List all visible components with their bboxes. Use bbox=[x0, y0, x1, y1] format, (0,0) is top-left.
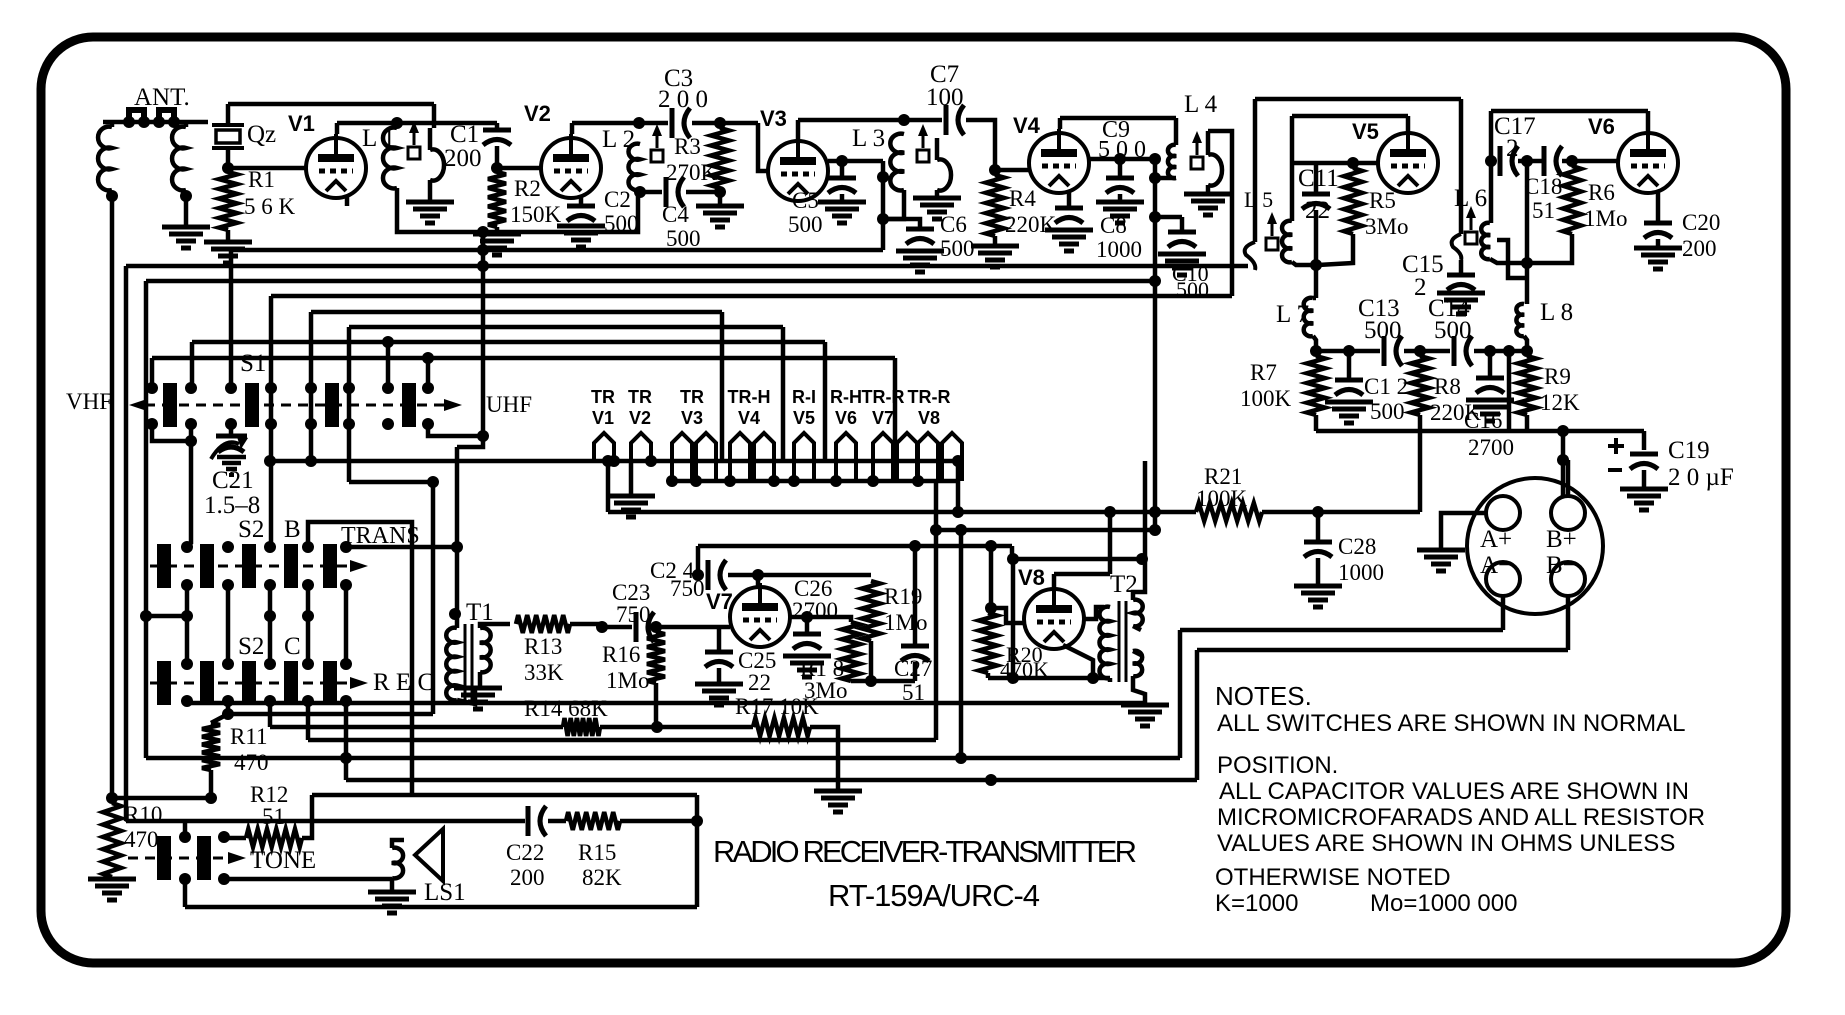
S1 contact bottom x349 bbox=[343, 418, 355, 430]
node bus tap bbox=[477, 226, 489, 238]
inductor LS1 coil bbox=[392, 848, 403, 879]
wire bbox=[1153, 159, 1158, 217]
inductor T2 sec bottom bbox=[1133, 651, 1142, 677]
svg-text:51: 51 bbox=[262, 804, 285, 829]
svg-text:200: 200 bbox=[510, 865, 545, 890]
wire V1 plate bbox=[335, 123, 340, 134]
wire bbox=[226, 148, 231, 168]
wire to C6 bbox=[883, 219, 920, 227]
wire bbox=[1313, 336, 1316, 351]
node B+ line bbox=[1557, 454, 1569, 466]
svg-text:V3: V3 bbox=[681, 408, 703, 428]
node V5 tank bbox=[1310, 259, 1322, 271]
node bbox=[1149, 153, 1161, 165]
wire bbox=[805, 617, 810, 632]
wire R8 down bbox=[1418, 431, 1423, 512]
inductor L3 link bbox=[937, 159, 951, 190]
wire bus y727 to R14 bbox=[270, 725, 563, 730]
wire S2 b-c link1 bbox=[185, 585, 190, 664]
svg-text:500: 500 bbox=[788, 212, 823, 237]
S2C contact top x346 bbox=[340, 658, 352, 670]
S2B contact top x228 bbox=[222, 541, 234, 553]
wire bus y296 bbox=[271, 294, 1232, 299]
tube V5 bbox=[1378, 129, 1438, 193]
inductor L8 bbox=[1516, 304, 1524, 336]
wire bbox=[495, 146, 500, 168]
wire R17 out bbox=[810, 727, 838, 789]
ground R1 bbox=[204, 240, 252, 245]
node V2 grid bbox=[491, 162, 503, 174]
S1 contact top x311 bbox=[305, 382, 317, 394]
svg-text:R15: R15 bbox=[578, 840, 616, 865]
wire C27 stub bbox=[913, 631, 918, 644]
S1 contact bottom x428 bbox=[422, 418, 434, 430]
S2B contact bottom x346 bbox=[340, 579, 352, 591]
wire bbox=[570, 624, 602, 627]
capacitor C6 bbox=[906, 227, 934, 232]
svg-text:270K: 270K bbox=[666, 160, 718, 185]
svg-text:1000: 1000 bbox=[1338, 560, 1384, 585]
bus2 junction x672 bbox=[666, 475, 678, 487]
svg-text:L 4: L 4 bbox=[1184, 91, 1218, 118]
wire V8 cathode bbox=[1063, 645, 1093, 678]
ground C16 bbox=[1466, 398, 1514, 403]
wire bbox=[1133, 651, 1141, 655]
S2C contact top x270 bbox=[264, 658, 276, 670]
pin TR-H V4b bbox=[754, 433, 774, 481]
junction bbox=[168, 116, 180, 128]
resistor R4 bbox=[986, 175, 1004, 236]
switch TONE bar x204 bbox=[197, 836, 211, 880]
svg-text:UHF: UHF bbox=[486, 392, 532, 417]
wire riser x428 bbox=[426, 358, 431, 388]
wire bbox=[1488, 351, 1493, 376]
wire B- bus bbox=[1197, 648, 1568, 653]
wire bbox=[1155, 215, 1182, 220]
svg-text:R4: R4 bbox=[1009, 186, 1036, 211]
svg-text:A−: A− bbox=[1480, 552, 1512, 579]
wire L6 bottom bbox=[1490, 259, 1525, 263]
wire bbox=[1525, 415, 1530, 431]
junction bbox=[952, 455, 964, 467]
wire left riser y281 bbox=[144, 281, 149, 758]
wire V4 plate bbox=[1058, 118, 1063, 129]
svg-text:RADIO RECEIVER-TRANSMITTER: RADIO RECEIVER-TRANSMITTER bbox=[713, 834, 1137, 869]
wire bbox=[869, 641, 874, 681]
capacitor C24 bbox=[706, 560, 711, 590]
ground C21 bbox=[217, 455, 246, 460]
inductor T2 primary bbox=[1099, 607, 1110, 679]
node C9 bbox=[1114, 153, 1126, 165]
switch S1 bar x170 bbox=[163, 383, 177, 427]
node L7 bottom bbox=[1310, 345, 1322, 357]
wire bbox=[696, 546, 701, 575]
wire bbox=[1010, 546, 1015, 559]
node L8 bottom bbox=[1521, 345, 1533, 357]
svg-text:C22: C22 bbox=[506, 840, 544, 865]
svg-text:C: C bbox=[284, 633, 301, 660]
capacitor C1 bbox=[483, 128, 511, 133]
switch S1 bar x409 bbox=[402, 383, 416, 427]
tube V7 bbox=[730, 583, 790, 647]
wire bus y798 bbox=[112, 796, 211, 801]
wire bbox=[1316, 558, 1321, 584]
node bbox=[185, 435, 197, 447]
switch TONE bar x164 bbox=[157, 836, 171, 880]
wire V2 cathode bbox=[579, 196, 584, 204]
wire tone top bbox=[126, 819, 525, 824]
svg-text:S2: S2 bbox=[238, 633, 264, 660]
node C16 top bbox=[1484, 345, 1496, 357]
ground C20 bbox=[1634, 246, 1682, 251]
S2B contact bottom x228 bbox=[222, 579, 234, 591]
svg-text:500: 500 bbox=[666, 226, 701, 251]
wire bbox=[1054, 572, 1110, 577]
S1 contact top x191 bbox=[185, 382, 197, 394]
wire bbox=[1418, 415, 1423, 431]
wire V1 cathode bbox=[345, 196, 350, 206]
wire A- lead bbox=[1501, 596, 1506, 630]
wire C11 top bbox=[1314, 163, 1319, 192]
TONE contact bbox=[218, 873, 230, 885]
resistor R17 bbox=[753, 718, 810, 736]
S2C contact bottom x270 bbox=[264, 695, 276, 707]
wire bbox=[840, 194, 845, 200]
svg-text:R-I: R-I bbox=[792, 387, 816, 407]
wire bus y342 bbox=[192, 340, 825, 345]
tube V4 bbox=[1029, 129, 1089, 193]
S2C contact bottom x187 bbox=[181, 695, 193, 707]
wire V1 feedback top bbox=[228, 102, 434, 107]
wire V4 out down bbox=[1153, 217, 1158, 512]
ground L3 link bbox=[913, 196, 961, 201]
svg-text:2 0 µF: 2 0 µF bbox=[1668, 464, 1734, 491]
capacitor C3 bbox=[670, 108, 675, 138]
switch S2B bar x330 bbox=[323, 544, 337, 588]
node bbox=[477, 260, 489, 272]
wire elbow bbox=[457, 436, 483, 447]
resistor R15 bbox=[566, 812, 620, 830]
svg-text:2 0 0: 2 0 0 bbox=[658, 86, 708, 113]
svg-text:R E C: R E C bbox=[373, 669, 434, 696]
node bbox=[955, 752, 967, 764]
node L3 top bbox=[898, 114, 910, 126]
capacitor C17 bbox=[1498, 146, 1503, 176]
svg-text:C19: C19 bbox=[1668, 437, 1710, 464]
svg-text:2700: 2700 bbox=[1468, 435, 1514, 460]
TONE contact bbox=[218, 831, 230, 843]
svg-text:750: 750 bbox=[670, 576, 705, 601]
capacitor C5 bbox=[828, 176, 856, 181]
capacitor C9 bbox=[1106, 176, 1134, 181]
node C28 bbox=[1312, 506, 1324, 518]
node bbox=[1149, 524, 1161, 536]
inductor antenna coil La bbox=[98, 127, 112, 191]
wire V5 plate top bbox=[1292, 114, 1408, 119]
wire link top bbox=[1206, 131, 1211, 155]
node V6 tank bbox=[1521, 257, 1533, 269]
svg-text:B−: B− bbox=[1546, 552, 1577, 579]
svg-text:500: 500 bbox=[604, 211, 639, 236]
wire R20/T2 bottom bbox=[988, 676, 1110, 681]
wire bbox=[654, 683, 659, 727]
ground T1 bbox=[454, 686, 502, 691]
node bbox=[305, 455, 317, 467]
wire V4 cathode bbox=[1067, 191, 1072, 206]
wire bbox=[1474, 349, 1530, 354]
node C10 bbox=[1149, 211, 1161, 223]
switch S2C wiper bbox=[150, 682, 352, 685]
wire V5 top loop bbox=[1255, 97, 1461, 102]
wire V6 plate loop bbox=[1491, 109, 1648, 114]
wire bbox=[211, 714, 228, 723]
node L4 bottom tap bbox=[1149, 172, 1161, 184]
wire riser x152 bbox=[150, 358, 155, 388]
svg-text:R9: R9 bbox=[1544, 364, 1571, 389]
svg-text:33K: 33K bbox=[524, 660, 564, 685]
node R3 top bbox=[714, 117, 726, 129]
S2B contact top x346 bbox=[340, 541, 352, 553]
capacitor C19 polarity minus bbox=[1608, 468, 1622, 472]
node bbox=[1503, 345, 1515, 357]
wire bbox=[184, 196, 189, 225]
switch S1 bar x252 bbox=[245, 383, 259, 427]
svg-text:V5: V5 bbox=[1352, 119, 1379, 144]
wire bbox=[851, 679, 915, 684]
wire bbox=[146, 614, 187, 619]
capacitor C15 bbox=[1447, 273, 1475, 278]
wire B- lead bbox=[1566, 596, 1571, 650]
wire vertical x483 bbox=[481, 232, 486, 436]
junction bbox=[123, 116, 135, 128]
wire bbox=[1155, 176, 1176, 181]
wire bbox=[306, 701, 311, 740]
svg-text:OTHERWISE NOTED: OTHERWISE NOTED bbox=[1215, 864, 1451, 891]
svg-text:22: 22 bbox=[748, 670, 771, 695]
svg-text:V4: V4 bbox=[1013, 113, 1041, 138]
svg-text:1.5–8: 1.5–8 bbox=[204, 492, 260, 519]
svg-text:K=1000: K=1000 bbox=[1215, 890, 1298, 917]
svg-text:C11: C11 bbox=[1298, 165, 1339, 192]
S2C contact bottom x346 bbox=[340, 695, 352, 707]
node C6 bbox=[877, 213, 889, 225]
capacitor C4 bbox=[664, 177, 669, 207]
S1 contact top x388 bbox=[382, 382, 394, 394]
node bbox=[427, 476, 439, 488]
wire left antenna bus bbox=[110, 196, 115, 798]
switch S2B bar x249 bbox=[242, 544, 256, 588]
node bbox=[1007, 672, 1019, 684]
node C26 bbox=[801, 611, 813, 623]
svg-text:C18: C18 bbox=[1524, 174, 1562, 199]
wire left riser y266 bbox=[124, 266, 129, 821]
wire bbox=[184, 122, 189, 127]
wire drop x783 bbox=[781, 327, 786, 461]
wire L2 bottom bbox=[640, 190, 662, 192]
pin TR V3b bbox=[696, 433, 716, 481]
ground A+ bbox=[1417, 548, 1465, 553]
node R11 top bbox=[222, 708, 234, 720]
svg-text:200: 200 bbox=[1682, 236, 1717, 261]
ground L1 link bbox=[406, 200, 454, 205]
wire bus y327 bbox=[349, 325, 783, 330]
S1 contact top x152 bbox=[146, 382, 158, 394]
svg-text:C1: C1 bbox=[450, 121, 479, 148]
switch S2C bar x291 bbox=[284, 661, 298, 705]
wire bbox=[840, 161, 845, 176]
wire C10 lead bbox=[1180, 217, 1185, 230]
svg-text:TR: TR bbox=[680, 387, 704, 407]
wire bbox=[600, 725, 753, 730]
svg-text:L 8: L 8 bbox=[1540, 299, 1573, 326]
wire V2 plate bbox=[570, 123, 575, 134]
inductor antenna coil Lb bbox=[172, 127, 186, 191]
node bbox=[140, 610, 152, 622]
wire IF line bbox=[1316, 349, 1380, 354]
inductor L1 bbox=[383, 128, 397, 189]
wire C3 to V3 grid bbox=[758, 123, 768, 171]
wire bbox=[183, 879, 188, 907]
pin TR-R V8b bbox=[942, 433, 962, 481]
capacitor C12 bbox=[1335, 378, 1363, 383]
switch S2B bar x164 bbox=[157, 544, 171, 588]
wire V4 out bbox=[1089, 157, 1120, 162]
node bbox=[477, 430, 489, 442]
wire bbox=[1118, 159, 1123, 178]
ground L4 link bbox=[1184, 192, 1232, 197]
svg-text:VALUES ARE SHOWN IN OHMS UNLES: VALUES ARE SHOWN IN OHMS UNLESS bbox=[1217, 830, 1675, 857]
inductor L2 bbox=[628, 144, 640, 191]
wire L4 link loop bbox=[1208, 131, 1232, 296]
resistor R6 bbox=[1563, 166, 1581, 234]
ground R10 bbox=[88, 877, 136, 882]
ground C10 bbox=[1158, 252, 1206, 257]
tube V6 bbox=[1618, 129, 1678, 193]
svg-text:R2: R2 bbox=[514, 176, 541, 201]
wire to R18 bbox=[807, 617, 851, 622]
capacitor C27 bbox=[901, 644, 929, 649]
wire bbox=[717, 668, 722, 682]
wire L5 top bbox=[1290, 163, 1295, 221]
wire bbox=[1314, 210, 1319, 265]
pin TR-R V7a bbox=[873, 433, 893, 481]
svg-text:VHF: VHF bbox=[66, 389, 112, 414]
node R11 bottom bbox=[205, 792, 217, 804]
resistor R11 bbox=[202, 723, 220, 770]
wire TRANS bracket bbox=[308, 522, 412, 795]
ground LS1 bbox=[368, 890, 416, 895]
node bbox=[955, 524, 967, 536]
ground ant coil bbox=[162, 225, 210, 230]
svg-text:2: 2 bbox=[1414, 274, 1427, 301]
node C17-C18 bbox=[1521, 155, 1533, 167]
wire bus y530 bbox=[936, 528, 1155, 533]
ground C26 bbox=[783, 654, 831, 659]
wire bbox=[1011, 559, 1016, 678]
tube V8 bbox=[1024, 585, 1084, 649]
trimmer L6 bbox=[1470, 214, 1473, 230]
wire bbox=[1347, 351, 1352, 378]
wire bbox=[1195, 650, 1200, 780]
node C24 in bbox=[692, 569, 704, 581]
svg-text:TR-H: TR-H bbox=[728, 387, 771, 407]
node R16 bottom bbox=[651, 721, 663, 733]
node bbox=[422, 352, 434, 364]
wire bbox=[548, 819, 566, 824]
bus2 junction x873 bbox=[867, 475, 879, 487]
resistor R14 bbox=[563, 718, 600, 736]
svg-text:R13: R13 bbox=[524, 634, 562, 659]
wire to L3 net bbox=[842, 159, 883, 164]
wire bbox=[1178, 630, 1183, 758]
trimmer L2 bbox=[656, 132, 659, 148]
wire bbox=[1118, 194, 1123, 200]
capacitor C16 bbox=[1476, 376, 1504, 381]
inductor L6 bbox=[1481, 223, 1490, 259]
capacitor C10 bbox=[1168, 230, 1196, 235]
svg-text:1Mo: 1Mo bbox=[1584, 206, 1627, 231]
svg-text:L 1: L 1 bbox=[362, 125, 395, 152]
wire bbox=[935, 190, 940, 196]
switch S1 wiper bbox=[145, 404, 446, 407]
capacitor C8 bbox=[1055, 206, 1083, 211]
wire drop x722 bbox=[720, 312, 725, 461]
resistor R16 bbox=[647, 632, 665, 683]
wire V8 plate bbox=[1052, 574, 1057, 589]
svg-text:V1: V1 bbox=[592, 408, 614, 428]
wire bbox=[639, 121, 668, 126]
wire S1c8 drop bbox=[428, 424, 483, 436]
svg-text:R1: R1 bbox=[248, 167, 275, 192]
junction bbox=[138, 116, 150, 128]
wire S2 b-c link4 bbox=[306, 585, 311, 664]
S2C contact top x228 bbox=[222, 658, 234, 670]
svg-text:C5: C5 bbox=[792, 188, 819, 213]
wire bbox=[1642, 431, 1647, 450]
wire bbox=[1313, 296, 1316, 301]
svg-text:V1: V1 bbox=[288, 111, 315, 136]
svg-text:V3: V3 bbox=[760, 106, 787, 131]
wire bbox=[986, 673, 991, 678]
wire bbox=[988, 608, 991, 613]
S2C contact top x187 bbox=[181, 658, 193, 670]
wire bbox=[692, 121, 758, 126]
S2B contact bottom x308 bbox=[302, 579, 314, 591]
wire x961 bbox=[959, 530, 964, 758]
bus2 junction x836 bbox=[830, 475, 842, 487]
svg-text:ALL SWITCHES ARE SHOWN IN NORM: ALL SWITCHES ARE SHOWN IN NORMAL bbox=[1217, 710, 1686, 737]
svg-text:V6: V6 bbox=[835, 408, 857, 428]
S1 contact bottom x271 bbox=[265, 418, 277, 430]
svg-text:R5: R5 bbox=[1369, 188, 1396, 213]
node bbox=[180, 190, 192, 202]
svg-text:220K: 220K bbox=[1005, 212, 1057, 237]
ground C6 bbox=[896, 249, 944, 254]
svg-text:3Mo: 3Mo bbox=[1365, 214, 1408, 239]
wire bbox=[495, 227, 500, 232]
wire to V2 grid bbox=[497, 166, 541, 171]
wire to C15 bbox=[1459, 99, 1464, 234]
wire bbox=[718, 188, 723, 204]
inductor T1 secondary bbox=[480, 628, 491, 673]
wire S2 b-c link5 bbox=[344, 585, 349, 664]
switch S2B bar x291 bbox=[284, 544, 298, 588]
wire to V6 grid bbox=[1562, 159, 1617, 164]
tube V3 bbox=[768, 137, 828, 201]
wire V3 plate bbox=[796, 120, 801, 141]
bus2 junction x918 bbox=[912, 475, 924, 487]
wire bbox=[881, 161, 886, 250]
